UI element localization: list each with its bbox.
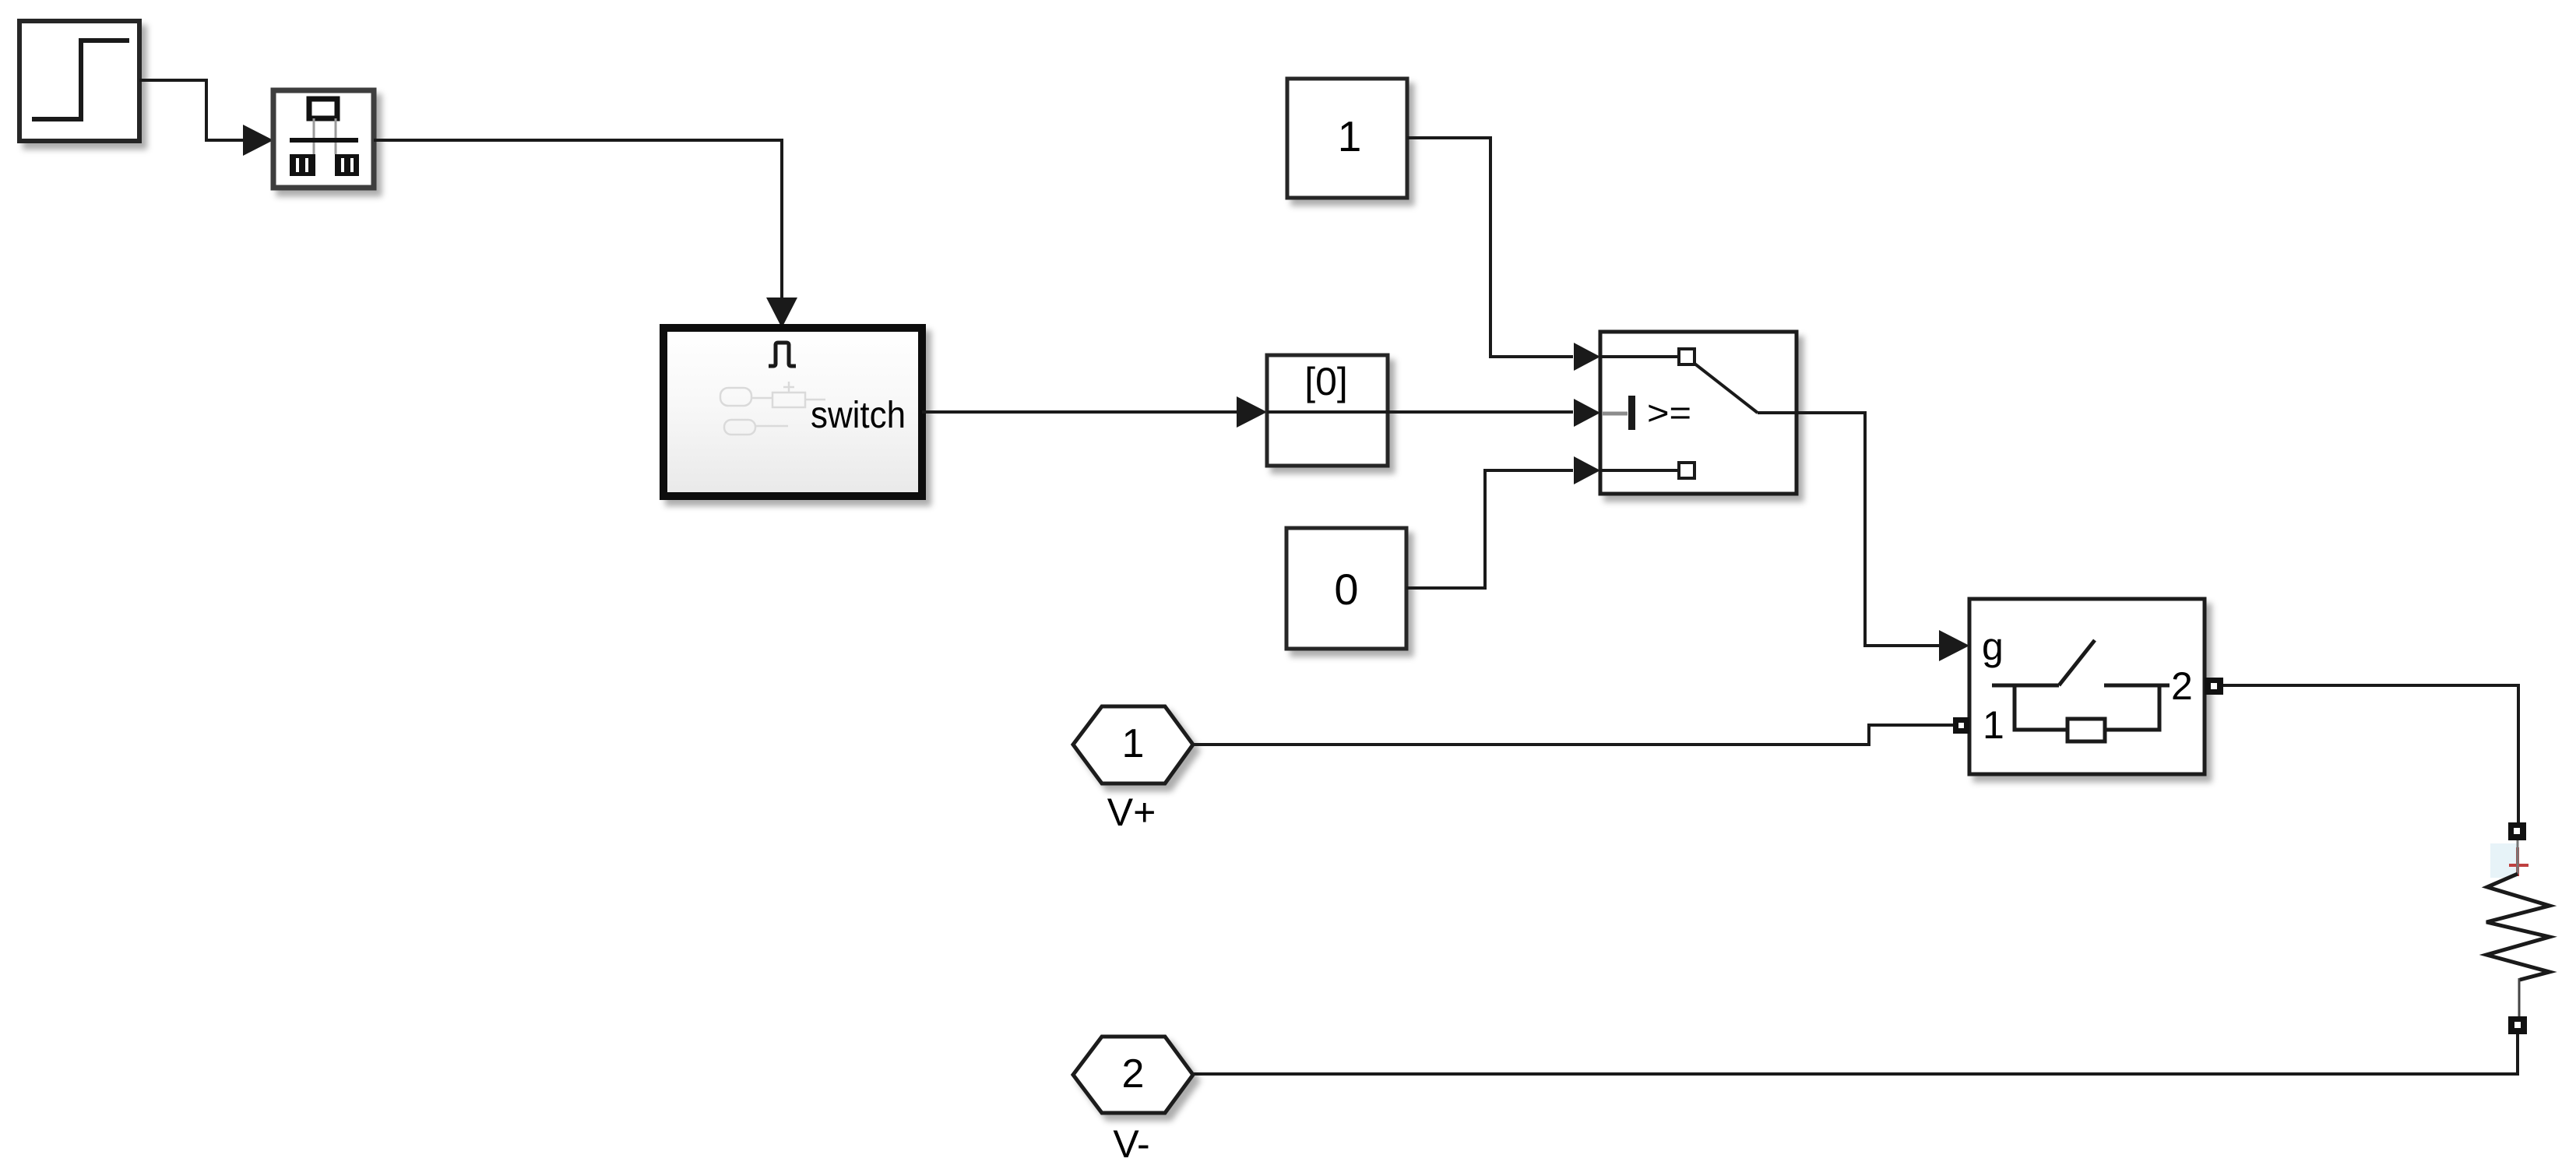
svg-text:>=: >=	[1647, 394, 1691, 432]
svg-text:2: 2	[1122, 1051, 1145, 1097]
svg-text:switch: switch	[811, 395, 906, 436]
svg-text:V+: V+	[1107, 790, 1156, 834]
svg-text:[0]: [0]	[1304, 360, 1348, 403]
svg-text:V-: V-	[1113, 1122, 1149, 1166]
svg-text:g: g	[1982, 625, 2004, 668]
svg-text:1: 1	[1122, 721, 1145, 766]
svg-text:0: 0	[1334, 565, 1358, 614]
svg-text:1: 1	[1338, 112, 1362, 160]
svg-text:1: 1	[1983, 703, 2004, 747]
svg-text:2: 2	[2171, 664, 2193, 708]
